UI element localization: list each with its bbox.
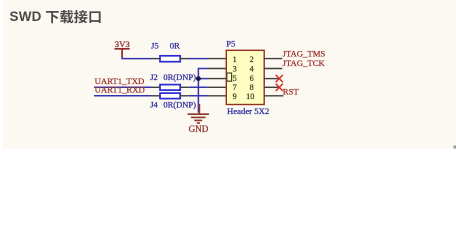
pin 8 (264, 86, 280, 88)
svg-text:0R(DNP): 0R(DNP) (163, 100, 196, 110)
pin 3 (208, 68, 227, 70)
pin 7 (208, 86, 227, 88)
pin 9 (208, 95, 227, 97)
svg-text:JTAG_TCK: JTAG_TCK (283, 58, 326, 68)
wire UART1_RXD (94, 95, 152, 97)
svg-text:J5: J5 (151, 40, 159, 50)
svg-text:3V3: 3V3 (115, 39, 130, 49)
scrollbar artifact bottom right (454, 146, 456, 149)
svg-text:JTAG_TMS: JTAG_TMS (283, 48, 326, 58)
pin numbers left column (233, 55, 237, 101)
ground symbol (188, 104, 210, 123)
wire 3V3 to J5 (122, 57, 152, 59)
wire J2 to pin7 (189, 86, 208, 88)
resistor J4 lead left (151, 95, 160, 97)
resistor J2 lead right (180, 86, 189, 88)
svg-text:0R: 0R (170, 40, 180, 50)
resistor J5 body (160, 56, 180, 62)
svg-text:8: 8 (250, 83, 254, 92)
pin 10 (264, 95, 283, 97)
power port 3V3 bar (115, 49, 130, 57)
wire UART1_TXD (94, 86, 152, 88)
svg-text:6: 6 (250, 74, 254, 83)
pin 2 (264, 58, 282, 60)
svg-text:GND: GND (189, 124, 209, 134)
pin numbers right column (246, 55, 254, 101)
resistor J5 lead right (180, 58, 188, 60)
no-erc cross pin8 (276, 84, 283, 91)
resistor J4 body (160, 93, 180, 99)
pin 5 (208, 78, 227, 80)
pin 5 marker box (227, 73, 232, 81)
svg-text:10: 10 (246, 92, 254, 101)
svg-text:J4: J4 (150, 100, 158, 110)
svg-text:7: 7 (233, 83, 237, 92)
resistor J5 lead left (152, 58, 160, 60)
svg-text:P5: P5 (226, 38, 235, 48)
svg-text:1: 1 (233, 55, 237, 64)
svg-text:UART1_RXD: UART1_RXD (95, 85, 145, 95)
svg-text:2: 2 (250, 55, 254, 64)
wire J4 to pin9 (189, 95, 208, 97)
resistor J4 lead right (180, 95, 189, 97)
connector P5 body (226, 50, 264, 104)
svg-text:5: 5 (233, 74, 237, 83)
resistor J2 lead left (151, 86, 160, 88)
wire J5 to pin1 (189, 58, 208, 60)
title CJK 下载接口 (45, 7, 105, 27)
svg-text:9: 9 (233, 92, 237, 101)
no-erc cross pin6 (276, 75, 283, 82)
pin 1 (208, 58, 227, 60)
wire gnd vertical (198, 69, 207, 113)
resistor J2 body (160, 85, 180, 91)
junction dot (196, 76, 201, 81)
svg-text:RST: RST (283, 86, 300, 96)
sheet title (10, 9, 42, 24)
pin 4 (264, 68, 282, 70)
svg-text:4: 4 (250, 65, 254, 74)
svg-text:Header 5X2: Header 5X2 (227, 106, 269, 116)
svg-text:3: 3 (233, 65, 237, 74)
wire dot to pin5 (198, 78, 207, 80)
svg-text:J2: J2 (150, 72, 158, 82)
svg-text:0R(DNP): 0R(DNP) (163, 72, 196, 82)
pin 6 (264, 78, 280, 80)
